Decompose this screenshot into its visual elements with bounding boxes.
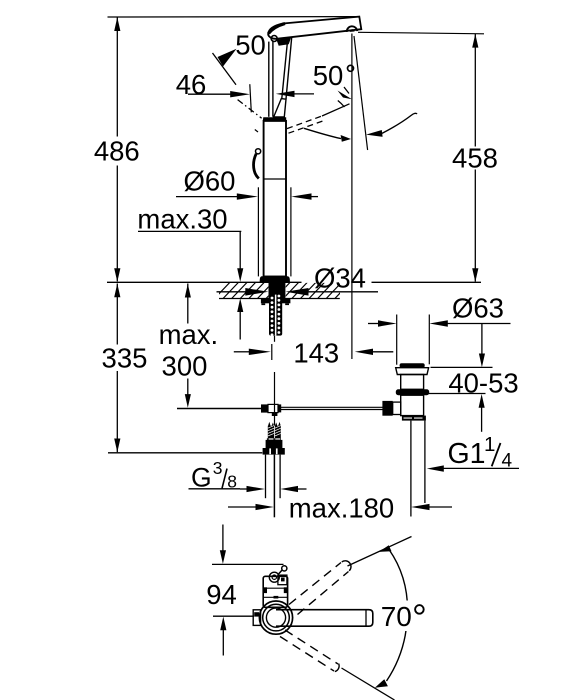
flexible hose tails xyxy=(266,455,281,518)
swivel radius line upper xyxy=(348,537,412,567)
drain extension lines vertical xyxy=(397,315,430,365)
label diameter 34 and arrows xyxy=(217,263,379,296)
svg-text:143: 143 xyxy=(293,338,339,369)
leader down to drain flange xyxy=(479,324,485,368)
extension line bottom of 335 xyxy=(108,452,262,454)
svg-text:50: 50 xyxy=(235,30,266,61)
dimension 46 xyxy=(176,69,314,112)
svg-text:94: 94 xyxy=(206,579,237,610)
top view lever cluster xyxy=(269,566,287,585)
svg-text:G: G xyxy=(191,462,212,492)
swivel arc 70 degrees with arrowheads xyxy=(375,545,408,688)
swivel radius line lower xyxy=(342,668,395,700)
label G 3/8 with underline xyxy=(189,458,241,492)
faucet center line below stud xyxy=(272,336,275,426)
pop-up rod cross connector xyxy=(261,404,281,416)
dimension 143 xyxy=(234,338,393,369)
extension line 458 (sloped, from spout outlet) xyxy=(358,32,484,34)
extension line top view spout axis xyxy=(213,615,254,617)
threaded stud xyxy=(269,295,282,337)
top view swivel joint circles xyxy=(259,601,292,634)
pop-up rod horizontal right double xyxy=(281,407,383,409)
dimension 40-53 xyxy=(425,367,519,432)
svg-text:458: 458 xyxy=(452,143,498,174)
dimension 486 vertical line xyxy=(114,17,120,282)
drain body upper xyxy=(401,375,424,390)
counter hatching xyxy=(214,282,359,299)
swing arc left segment with arrowhead xyxy=(304,128,351,142)
svg-text:50: 50 xyxy=(313,60,344,91)
dimension 458 vertical line xyxy=(472,34,478,282)
drain locknut black xyxy=(402,416,426,421)
label diameter 60 and arrows xyxy=(176,166,318,200)
dimension 94 xyxy=(206,525,237,656)
svg-text:3: 3 xyxy=(213,458,223,478)
neck lines xyxy=(269,41,273,116)
svg-text:Ø60: Ø60 xyxy=(184,166,236,197)
svg-text:Ø34: Ø34 xyxy=(314,263,366,294)
spout/lever outline xyxy=(268,17,361,46)
svg-text:G1: G1 xyxy=(448,438,486,470)
side pull-rod knob xyxy=(254,149,261,179)
extension line top view upper xyxy=(212,563,284,565)
label 50 with leader xyxy=(213,30,266,85)
dimension G3/8 arrows xyxy=(240,486,307,492)
top view spout bar xyxy=(276,610,373,627)
spout outlet dome xyxy=(347,26,357,32)
label 50 degrees with leader arrow xyxy=(313,60,354,99)
label max.30 with underline and dimension xyxy=(137,204,243,340)
label diameter 63 and arrows xyxy=(368,293,511,327)
label 335 xyxy=(102,343,148,374)
handle stem wedge xyxy=(274,99,286,117)
drain rod spigot xyxy=(382,401,400,416)
label 486 xyxy=(94,136,140,167)
extension line top (spout top level) xyxy=(108,16,360,18)
label 458 xyxy=(452,143,498,174)
dashed raised-spout lines xyxy=(255,104,350,133)
svg-text:max.30: max.30 xyxy=(137,204,227,235)
supply hose connectors G3/8 xyxy=(263,422,285,455)
faucet body tube xyxy=(264,121,286,277)
svg-text:40-53: 40-53 xyxy=(448,367,518,398)
label 70 degrees xyxy=(379,601,428,633)
drain plug cap black xyxy=(400,363,425,368)
counter bottom line xyxy=(219,298,340,300)
counter top line xyxy=(107,281,481,283)
svg-text:335: 335 xyxy=(102,343,148,374)
cartridge cap black band xyxy=(263,117,286,121)
dashed spout position lower xyxy=(280,630,339,672)
handle stem lines xyxy=(282,37,292,99)
small curve fragment xyxy=(338,101,345,108)
tilted handle axis line xyxy=(354,36,368,150)
top view body xyxy=(263,576,287,607)
drain body lower xyxy=(401,395,424,415)
pop-up rod horizontal left xyxy=(177,408,261,410)
label G1 1/4 with underline and leader xyxy=(427,433,519,472)
svg-text:46: 46 xyxy=(176,69,207,100)
svg-text:1: 1 xyxy=(484,433,495,456)
base flange black xyxy=(260,276,290,282)
svg-text:300: 300 xyxy=(162,350,208,381)
drain flange xyxy=(396,368,429,375)
svg-text:486: 486 xyxy=(94,136,140,167)
swing arc right segment with arrowhead xyxy=(366,113,417,137)
drain seal ring black xyxy=(396,389,429,395)
body outer sleeve lines xyxy=(258,187,291,276)
dimension max.180 xyxy=(228,493,452,524)
svg-text:Ø63: Ø63 xyxy=(452,293,504,324)
dash-dot construction line left xyxy=(238,100,262,119)
spout pivot circle xyxy=(271,36,277,42)
outlet axis vertical line xyxy=(351,34,353,360)
label max. 300 with dimension xyxy=(159,284,219,408)
mounting nut black xyxy=(261,299,291,306)
threaded shank through counter xyxy=(269,282,286,298)
svg-text:max.180: max.180 xyxy=(289,493,394,524)
top view side knob tab xyxy=(253,610,260,626)
dashed spout position upper xyxy=(289,561,351,615)
drain tailpipe xyxy=(411,421,425,517)
dimension 335 vertical line xyxy=(114,284,120,453)
svg-text:70: 70 xyxy=(381,601,412,632)
